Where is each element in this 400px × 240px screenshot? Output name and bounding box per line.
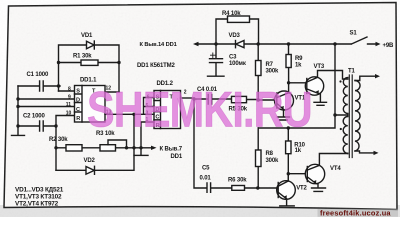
- svg-text:VD1: VD1: [81, 33, 93, 39]
- svg-text:100мк: 100мк: [229, 61, 246, 67]
- svg-text:R9: R9: [295, 56, 303, 62]
- svg-text:freesoft4ik.ucoz.ua: freesoft4ik.ucoz.ua: [320, 209, 391, 217]
- svg-text:VD1...VD3 КД521: VD1...VD3 КД521: [15, 187, 64, 194]
- svg-text:DD1: DD1: [171, 154, 183, 160]
- svg-text:T1: T1: [348, 69, 356, 75]
- svg-text:R: R: [76, 116, 80, 122]
- svg-text:VD3: VD3: [229, 33, 241, 39]
- svg-text:C5: C5: [202, 166, 210, 172]
- svg-text:1k: 1k: [295, 63, 302, 69]
- svg-text:300k: 300k: [266, 69, 280, 75]
- svg-text:DD1 К561ТМ2: DD1 К561ТМ2: [137, 63, 176, 69]
- svg-text:R1 30k: R1 30k: [73, 54, 92, 60]
- svg-text:10: 10: [66, 111, 72, 117]
- svg-text:11: 11: [66, 102, 72, 108]
- svg-text:К Выв.7: К Выв.7: [160, 147, 183, 153]
- svg-text:VT2,VT4 КТ972: VT2,VT4 КТ972: [15, 200, 59, 207]
- svg-text:1k: 1k: [295, 148, 302, 154]
- svg-text:R2 30k: R2 30k: [49, 137, 68, 143]
- svg-text:VD2: VD2: [84, 158, 96, 164]
- svg-text:300k: 300k: [266, 158, 280, 164]
- svg-text:R4 10k: R4 10k: [222, 11, 241, 17]
- svg-text:8: 8: [68, 87, 71, 93]
- svg-text:0.01: 0.01: [200, 175, 212, 181]
- svg-text:R7: R7: [266, 62, 274, 68]
- svg-text:R6 30k: R6 30k: [228, 177, 247, 183]
- svg-text:S1: S1: [350, 31, 358, 37]
- svg-text:9: 9: [68, 95, 71, 101]
- svg-text:C2 1000: C2 1000: [23, 114, 45, 120]
- svg-text:C3: C3: [229, 55, 237, 61]
- svg-text:+9В: +9В: [383, 43, 395, 49]
- svg-text:R8: R8: [266, 151, 274, 157]
- svg-text:VT3: VT3: [314, 64, 325, 70]
- svg-text:S: S: [76, 89, 80, 95]
- svg-text:C1 1000: C1 1000: [27, 72, 49, 78]
- svg-text:VT4: VT4: [330, 166, 341, 172]
- svg-text:C: C: [76, 107, 80, 113]
- svg-text:D: D: [76, 98, 80, 104]
- svg-text:SHEMKI.RU: SHEMKI.RU: [87, 81, 312, 138]
- svg-text:К Выв.14 DD1: К Выв.14 DD1: [140, 42, 177, 48]
- svg-text:VT2: VT2: [296, 185, 307, 191]
